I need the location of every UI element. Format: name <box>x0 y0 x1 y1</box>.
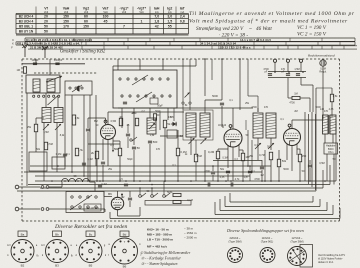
wire B6 anode <box>117 191 119 197</box>
bus wire HT2 <box>40 187 323 189</box>
voltage selector arm <box>70 195 92 210</box>
switch section 2 contacts <box>69 87 71 89</box>
wire gramophone feeds <box>139 188 141 195</box>
wire switch box to top rail <box>112 66 114 70</box>
switch contact S3 <box>299 59 302 62</box>
junction dots on left buses <box>99 180 101 182</box>
capacitor C21 on bus <box>124 183 128 185</box>
detector cluster dots <box>247 165 249 167</box>
inner component box <box>150 98 158 104</box>
detector cluster verticals <box>247 130 249 166</box>
valve B5 UBL1 output <box>284 129 301 146</box>
wire mains 2 <box>19 208 40 210</box>
long vertical bus 2 <box>308 114 310 184</box>
wire drop x96 <box>95 95 97 166</box>
bus right risers <box>335 120 337 181</box>
wire R19 <box>195 140 197 154</box>
wire R2 link <box>35 118 37 124</box>
wire branch <box>300 78 302 86</box>
wave switch contacts row <box>33 95 35 97</box>
long vertical bus 1 <box>304 112 306 181</box>
resistor R2 25k <box>34 124 37 132</box>
resistor R12 0,7M <box>269 152 272 160</box>
bus wire heater 1 <box>17 190 316 192</box>
output transformer T5 secondary <box>330 115 336 134</box>
resistor R17 50pF <box>173 193 181 196</box>
wire R10 <box>217 149 219 151</box>
bus wire earth <box>35 180 336 182</box>
IF transformer 2 secondary <box>266 113 276 138</box>
wire gang drop B <box>189 59 191 102</box>
capacitor C14 <box>308 164 312 166</box>
capacitor C15 4700pF <box>207 182 209 186</box>
wire grid cap down <box>87 132 89 181</box>
wire B5 pins <box>286 144 288 161</box>
aerial coil L2 <box>47 79 55 92</box>
socket label box Bd <box>120 231 129 237</box>
switch section 2 box <box>65 81 92 95</box>
osc switch contact <box>130 139 132 141</box>
wire IFT1 secondary bottom <box>204 150 206 181</box>
mains terminal 2 <box>15 207 19 211</box>
capacitor C4 <box>132 146 136 148</box>
switch section 2 arm <box>72 85 82 92</box>
wire R14 <box>331 88 333 94</box>
valve socket B6 bottom view <box>112 238 138 264</box>
capacitor C3b <box>82 162 86 164</box>
diode D1 <box>171 123 177 125</box>
resistor R18 0,1M <box>173 200 181 203</box>
osc trimmer arrow <box>185 93 190 98</box>
wire B5 anode <box>291 120 293 129</box>
long vertical bus 4 <box>315 114 317 190</box>
mains switch contacts 1 <box>41 186 44 189</box>
wire cap rail bottom <box>268 77 306 79</box>
wire detector crossbar <box>213 160 262 162</box>
bus wire neg rail <box>215 214 333 216</box>
wire HT feed line <box>118 107 233 109</box>
rotary indicator arrow <box>46 76 62 82</box>
padder box <box>167 130 177 138</box>
wire R7 drop <box>177 156 179 181</box>
wire C18 <box>212 166 214 171</box>
decoupling box B <box>52 157 65 169</box>
wire B3 pins <box>227 145 229 168</box>
spare socket box <box>300 245 313 268</box>
socket label box Bb <box>53 231 62 237</box>
bus wire heater 2 <box>230 201 313 203</box>
band switch wafer 2 arm <box>136 92 152 102</box>
IF transformer 1 secondary <box>200 113 210 137</box>
wire mains 1b <box>49 186 62 188</box>
capacitor C7 cathode <box>101 161 105 163</box>
wire B6 left feed <box>104 196 112 198</box>
antenna A2 <box>42 46 45 50</box>
gramophone switch contact 2 <box>151 195 154 198</box>
wire choke ends <box>90 181 96 183</box>
capacitor C19 <box>248 170 252 172</box>
junction dots <box>51 180 53 182</box>
wire C10 drop <box>261 170 263 181</box>
wire transformer drops <box>324 134 326 143</box>
antenna A1 <box>22 44 25 48</box>
wire switch box feeds <box>117 59 119 70</box>
wire input drops <box>26 93 28 186</box>
wire cathode down <box>96 159 98 181</box>
oscillator coil L5 <box>147 118 156 134</box>
resistor R13 50k <box>277 159 280 167</box>
band switch wafer 1 contacts <box>119 78 121 80</box>
wire B2 grid top cap <box>105 118 107 122</box>
smoothing capacitor C17 <box>128 197 132 199</box>
padder capacitor in switch box <box>123 101 127 103</box>
capacitor C9 <box>226 170 230 172</box>
bias line <box>35 175 250 177</box>
dial pointer symbol <box>77 86 80 92</box>
wire osc bottom 3 <box>164 128 166 181</box>
wire oscillator drops <box>121 108 123 128</box>
input coil box <box>26 75 60 93</box>
bus wire HT1 <box>28 184 330 186</box>
wire C14 <box>309 160 311 164</box>
aerial coil L1 <box>33 79 40 92</box>
potentiometer P4 <box>320 60 326 66</box>
wire IFT2 bottoms <box>257 138 259 160</box>
switch contact S2 <box>286 59 289 62</box>
wire gang drop 1 <box>204 59 206 96</box>
capacitor C2 5000pF <box>55 62 59 64</box>
decoupling box A <box>29 152 47 171</box>
wire detector run <box>287 78 289 99</box>
wave switch arm <box>48 95 59 105</box>
bus wire AVC return <box>225 206 320 208</box>
coil alignment band 2 <box>16 41 355 43</box>
wire R16 <box>299 149 301 154</box>
resistor R5c 50 <box>153 114 156 121</box>
output transformer T5 primary <box>323 115 329 134</box>
valve B6 UY1N rectifier <box>111 197 123 209</box>
capacitor C5 <box>148 140 152 142</box>
valve socket B5 bottom view <box>79 240 102 263</box>
band switch wafer 2 contacts <box>121 95 123 97</box>
AVC line long <box>30 165 271 167</box>
wire gang drop 2 <box>221 59 223 100</box>
resistor R4b 1,5k <box>72 115 75 125</box>
wire B6 cathode <box>117 210 119 216</box>
resistor R8 cathode <box>95 151 98 159</box>
speaker label box <box>324 143 338 154</box>
wire pot drop <box>322 66 324 120</box>
coil group socket 110V <box>260 248 275 263</box>
heater dropper choke <box>62 179 69 182</box>
wire osc risers <box>173 108 175 121</box>
resistor R1 1M <box>23 67 26 74</box>
voltage selector label box <box>84 204 101 211</box>
resistor R19 0,5M <box>194 154 197 162</box>
IFT1 trimmer arrows <box>189 138 195 144</box>
bus wire outermost <box>110 218 340 220</box>
wire top mid verticals <box>211 59 213 80</box>
capacitor C3 <box>63 153 67 155</box>
IFT1 enclosure <box>183 110 213 140</box>
wire R13 <box>278 150 280 159</box>
osc switch contact B <box>189 102 191 104</box>
band switch gang dashed line <box>22 58 340 60</box>
chassis dashed border bottom <box>22 220 340 222</box>
valve data table grid <box>15 14 17 34</box>
IF transformer 1 primary <box>186 113 196 137</box>
resistor R16 150 <box>298 154 301 162</box>
wire cap rail top <box>268 71 306 73</box>
wire screen top <box>119 141 121 148</box>
trimmer T2 <box>55 124 61 130</box>
wire mains 1 <box>19 186 40 188</box>
wire R2 down <box>35 132 37 152</box>
coil alignment band 3 <box>28 45 357 47</box>
wire IFT1 secondary top <box>204 100 206 113</box>
resistor R7 0,1M <box>176 148 179 156</box>
valve socket B2 bottom view <box>11 240 34 263</box>
capacitor C18 tone <box>211 171 215 173</box>
capacitor C4b <box>126 133 130 135</box>
wire R15 run <box>288 97 292 99</box>
band switch box <box>113 70 177 108</box>
resistor R3 0,5M <box>44 142 47 150</box>
capacitor C20 on bus <box>98 184 102 186</box>
wire detector load <box>270 160 272 181</box>
wire mains 2b <box>49 208 105 210</box>
gramophone switch contact 3 <box>163 195 166 198</box>
wire osc link <box>182 104 184 110</box>
wire mid horizontals <box>88 143 120 145</box>
resistor R9 screen <box>118 148 121 156</box>
mains terminal 1 <box>15 185 19 189</box>
wire contact drops <box>274 62 276 71</box>
wire gang drop 3 <box>239 59 241 110</box>
IF transformer 2 primary <box>253 113 263 138</box>
wire B2 pins <box>102 139 104 160</box>
wire C8 to grid <box>221 106 223 127</box>
resistor R10 0,2M <box>216 151 219 159</box>
switch contact S1 <box>273 59 276 62</box>
long vertical bus 3 <box>311 112 313 187</box>
chassis dashed border right <box>339 59 341 221</box>
wire osc bottom 1 <box>133 150 135 181</box>
gramophone switch contact 1 <box>139 195 142 198</box>
wire osc bottom 2 <box>149 144 151 181</box>
chassis dashed border left <box>21 59 23 221</box>
voltage selector box <box>66 192 104 213</box>
wire C19 <box>249 166 251 170</box>
capacitor C11 4700pF <box>268 73 272 75</box>
aerial coil L3 <box>42 108 51 123</box>
voltage selector contacts <box>71 196 73 198</box>
capacitor C6 grid <box>86 128 90 130</box>
transformer core lines <box>328 115 330 134</box>
wire IFT1 primary bottom <box>190 137 192 155</box>
wire R11 drop <box>242 161 244 181</box>
resistor R5b 0,5M <box>119 118 122 126</box>
capacitor C16 <box>230 182 232 186</box>
resistor R11 1M <box>241 153 244 161</box>
band switch gang dashed segment left <box>34 72 98 74</box>
wire antenna bus <box>22 63 85 65</box>
wire C9 drop <box>227 174 229 181</box>
capacitor C13 1,5M <box>296 73 300 75</box>
wire B3 anode <box>232 108 234 129</box>
resistor R15 1M <box>292 96 300 99</box>
wire C17 <box>129 191 131 197</box>
socket label box Ba <box>18 231 27 237</box>
capacitor C8 5000pF <box>220 102 224 104</box>
bus wire bias <box>220 210 327 212</box>
wire gang drop A <box>182 59 184 102</box>
gramophone bar <box>145 201 191 206</box>
valve B2 UCH4 mixer <box>101 125 116 140</box>
trimmer T1 <box>43 124 49 130</box>
valve socket B3 bottom view <box>46 240 69 263</box>
AF return line <box>24 171 262 173</box>
band switch wafer 1 arm <box>132 75 148 85</box>
capacitor C10 <box>260 166 264 168</box>
mains switch contacts 2 <box>41 208 44 211</box>
valve B3 UCH4 IF amplifier <box>224 129 242 147</box>
coil alignment band 1 <box>25 37 355 39</box>
wire coil feeds <box>45 93 47 108</box>
resistor R6 5k <box>163 120 166 128</box>
osc switch contact A <box>182 102 184 104</box>
capacitor C12 470pF <box>286 73 290 75</box>
B6 top cap dot <box>121 194 123 196</box>
coil group socket 127V <box>288 247 307 266</box>
socket label box Bc <box>86 231 95 237</box>
oscillator trimmer T3 <box>149 123 155 129</box>
resistor R5 20k <box>135 118 138 126</box>
resistor R4 1,5k <box>75 148 78 156</box>
IFT2 trimmers <box>255 143 261 149</box>
capacitor C1 100pF <box>33 62 37 64</box>
wire B2 anode <box>107 112 109 125</box>
B2 pin arrowheads <box>112 150 114 152</box>
aerial coil L4 <box>54 108 63 123</box>
wire screen drop <box>119 156 121 181</box>
wire R7 top <box>177 130 179 148</box>
wire switch to gang <box>35 59 37 64</box>
extra junction dots <box>57 165 59 167</box>
resistor R14 1,5k <box>330 94 333 102</box>
coil group socket 220V <box>228 248 243 263</box>
